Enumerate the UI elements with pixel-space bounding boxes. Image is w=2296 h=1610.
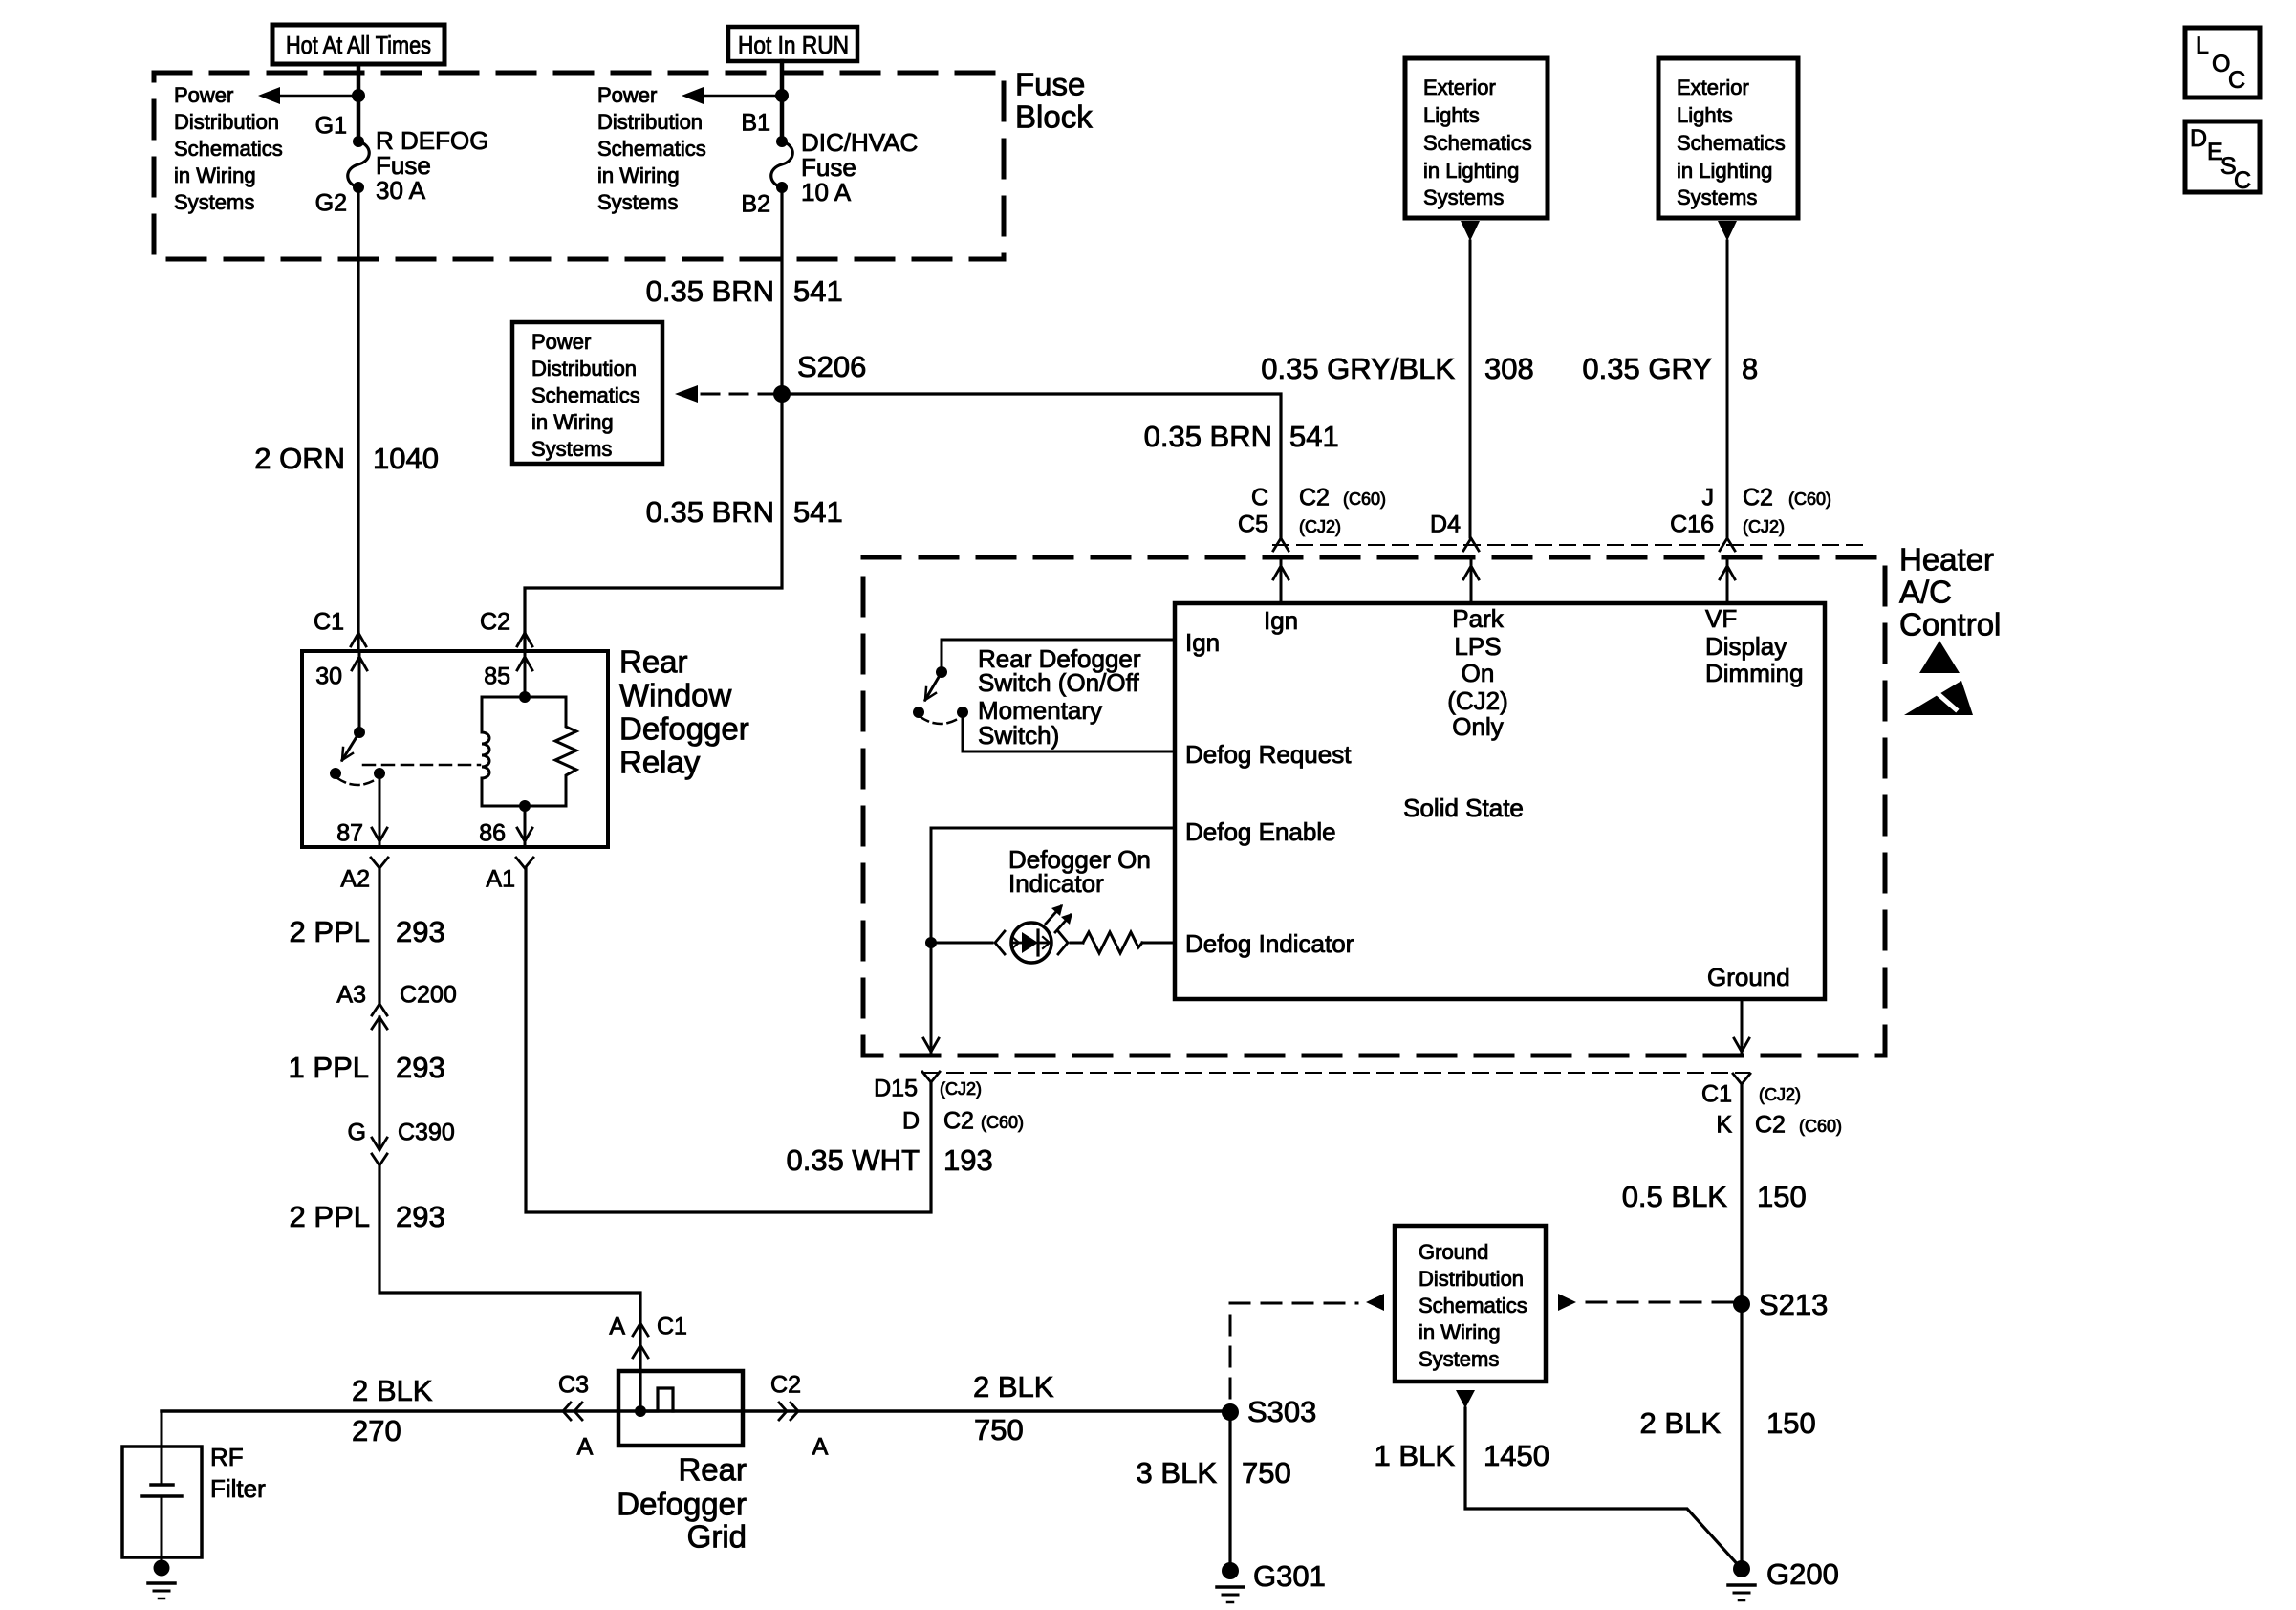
svg-text:541: 541 bbox=[793, 495, 843, 529]
svg-text:Ground: Ground bbox=[1419, 1240, 1488, 1264]
svg-text:85: 85 bbox=[484, 664, 510, 690]
svg-text:(C60): (C60) bbox=[1788, 490, 1831, 509]
svg-text:A2: A2 bbox=[340, 866, 370, 893]
svg-text:G200: G200 bbox=[1766, 1557, 1839, 1591]
svg-text:Distribution: Distribution bbox=[531, 357, 637, 381]
splice S213 bbox=[1733, 1288, 1828, 1321]
wire 0.35 WHT 193 D15 to relay A1 bbox=[526, 868, 993, 1212]
svg-text:Ign: Ign bbox=[1185, 628, 1220, 657]
fuse DIC/HVAC 10A bbox=[741, 110, 918, 218]
connector boundary dashed line (bottom) bbox=[923, 1072, 1749, 1074]
rear defogger grid box bbox=[618, 1371, 743, 1446]
label "Heater A/C Control" bbox=[1899, 542, 2001, 642]
svg-text:0.35 WHT: 0.35 WHT bbox=[786, 1143, 920, 1177]
svg-text:Heater: Heater bbox=[1899, 542, 1994, 577]
relay coil bottom rail bbox=[482, 800, 566, 812]
label "Fuse Block" bbox=[1015, 67, 1093, 135]
svg-text:(CJ2): (CJ2) bbox=[1299, 517, 1341, 536]
wire 1 PPL 293 bbox=[289, 1017, 445, 1149]
svg-text:in Wiring: in Wiring bbox=[531, 410, 614, 434]
svg-text:Hot In RUN: Hot In RUN bbox=[738, 31, 849, 59]
svg-text:L: L bbox=[2196, 33, 2209, 59]
svg-text:D15: D15 bbox=[874, 1076, 918, 1102]
svg-text:Power: Power bbox=[597, 83, 657, 107]
ground G301 bbox=[1217, 1559, 1326, 1602]
switch dashed momentary arc bbox=[921, 717, 961, 724]
svg-text:Filter: Filter bbox=[210, 1474, 266, 1503]
svg-text:293: 293 bbox=[396, 1051, 445, 1084]
svg-text:Rear: Rear bbox=[678, 1452, 747, 1488]
svg-text:Defogger: Defogger bbox=[617, 1487, 747, 1522]
svg-text:C200: C200 bbox=[400, 982, 457, 1009]
box exterior lights schematics (right) bbox=[1658, 58, 1798, 218]
LED emission arrows bbox=[1046, 904, 1072, 932]
text power distribution reference (left) bbox=[174, 83, 283, 214]
ground bus wire 2 BLK 270 bbox=[162, 1370, 1230, 1447]
svg-text:Systems: Systems bbox=[1419, 1347, 1499, 1371]
wire Defog Enable to D15 bbox=[923, 828, 1175, 1055]
svg-text:A1: A1 bbox=[486, 866, 515, 893]
connector C1 pin A into grid bbox=[609, 1314, 687, 1358]
svg-text:D: D bbox=[902, 1108, 920, 1135]
node junction on R DEFOG feed bbox=[352, 89, 365, 102]
svg-text:Exterior: Exterior bbox=[1423, 76, 1496, 99]
connector C3 pin A on grid left bbox=[558, 1372, 594, 1461]
connector D4 labels bbox=[1430, 511, 1479, 551]
label box "Hot At All Times" bbox=[272, 25, 444, 64]
wire 0.35 GRY 8 to heater C16 bbox=[1582, 241, 1758, 537]
svg-text:2 PPL: 2 PPL bbox=[290, 1200, 370, 1233]
relay coil top rail bbox=[482, 691, 566, 703]
wire D4 into solid state Park bbox=[1463, 559, 1479, 603]
svg-text:3 BLK: 3 BLK bbox=[1137, 1456, 1218, 1490]
svg-text:Defog Indicator: Defog Indicator bbox=[1185, 929, 1354, 958]
svg-text:C2: C2 bbox=[1743, 485, 1773, 511]
svg-text:G301: G301 bbox=[1253, 1559, 1326, 1593]
svg-text:Schematics: Schematics bbox=[597, 137, 706, 161]
svg-text:S213: S213 bbox=[1759, 1288, 1828, 1321]
wire S206 right to heater C5 bbox=[782, 394, 1339, 537]
wire 2 PPL 293 to rear defogger grid bbox=[290, 1165, 640, 1411]
relay switch dashed throw arc bbox=[337, 778, 378, 785]
svg-text:C: C bbox=[2228, 67, 2245, 94]
relay coil suppression resistor bbox=[555, 697, 576, 806]
svg-text:541: 541 bbox=[793, 274, 843, 308]
wire C16 into solid state VF bbox=[1720, 559, 1735, 603]
svg-text:1040: 1040 bbox=[373, 442, 439, 475]
svg-text:541: 541 bbox=[1289, 420, 1339, 453]
svg-text:0.35 GRY: 0.35 GRY bbox=[1582, 352, 1712, 385]
svg-text:in Wiring: in Wiring bbox=[174, 163, 256, 187]
svg-text:Distribution: Distribution bbox=[174, 110, 279, 134]
svg-text:D4: D4 bbox=[1430, 511, 1461, 538]
text power distribution reference (middle) bbox=[597, 83, 706, 214]
svg-text:Park: Park bbox=[1452, 604, 1504, 633]
wire 2 ORN 1040 from fuse to relay C1 bbox=[254, 187, 439, 633]
svg-text:G2: G2 bbox=[315, 190, 347, 217]
svg-text:Systems: Systems bbox=[174, 190, 254, 214]
svg-text:(CJ2): (CJ2) bbox=[1447, 686, 1508, 715]
svg-text:Exterior: Exterior bbox=[1677, 76, 1749, 99]
svg-text:in Wiring: in Wiring bbox=[597, 163, 680, 187]
svg-text:87: 87 bbox=[336, 820, 363, 847]
connector C2 into relay bbox=[480, 609, 532, 651]
svg-text:Switch (On/Off: Switch (On/Off bbox=[978, 668, 1139, 697]
box power distribution schematics (S206 ref) bbox=[512, 322, 662, 464]
grid element pulse symbol bbox=[635, 1388, 673, 1417]
svg-text:0.5 BLK: 0.5 BLK bbox=[1622, 1180, 1728, 1213]
wire from Hot In RUN down to fuse B1 bbox=[780, 61, 785, 141]
svg-text:Defog Enable: Defog Enable bbox=[1185, 817, 1336, 846]
relay pin 30 bbox=[315, 651, 367, 732]
wire 3 BLK 750 to G301 bbox=[1137, 1412, 1291, 1571]
svg-text:G: G bbox=[348, 1120, 366, 1146]
svg-text:2 BLK: 2 BLK bbox=[973, 1370, 1054, 1403]
svg-text:A: A bbox=[577, 1434, 594, 1461]
svg-text:Display: Display bbox=[1705, 632, 1787, 661]
svg-text:Fuse: Fuse bbox=[1015, 67, 1085, 102]
RF filter box bbox=[122, 1443, 266, 1557]
relay coil winding bbox=[482, 697, 489, 806]
svg-text:C2: C2 bbox=[1755, 1112, 1786, 1139]
svg-text:Distribution: Distribution bbox=[1419, 1267, 1524, 1291]
connector C16 pin J labels bbox=[1670, 485, 1831, 551]
svg-text:2 BLK: 2 BLK bbox=[352, 1374, 433, 1407]
relay switch arm bbox=[330, 727, 365, 779]
svg-text:Block: Block bbox=[1015, 99, 1093, 135]
svg-text:C16: C16 bbox=[1670, 511, 1714, 538]
svg-text:C5: C5 bbox=[1238, 511, 1268, 538]
ground symbol at RF filter bbox=[148, 1560, 175, 1599]
dashed reference ground distribution box to S213 bbox=[1558, 1294, 1732, 1311]
svg-text:Schematics: Schematics bbox=[531, 383, 640, 407]
dashed arrow S206 to power distribution box bbox=[675, 385, 772, 402]
svg-text:(C60): (C60) bbox=[1343, 490, 1386, 509]
svg-text:(C60): (C60) bbox=[1799, 1117, 1842, 1136]
rear defogger switch bbox=[913, 666, 968, 718]
svg-text:Systems: Systems bbox=[1423, 185, 1504, 209]
label "Rear Window Defogger Relay" bbox=[619, 644, 749, 780]
svg-text:0.35 BRN: 0.35 BRN bbox=[1144, 420, 1272, 453]
wire 0.5 BLK 150 to S213 bbox=[1622, 1084, 1807, 1304]
svg-text:Schematics: Schematics bbox=[1677, 131, 1786, 155]
svg-text:750: 750 bbox=[1242, 1456, 1291, 1490]
svg-text:D: D bbox=[2190, 125, 2207, 152]
wire solid state Ground pin down bbox=[1734, 999, 1749, 1055]
svg-text:10 A: 10 A bbox=[801, 178, 852, 207]
svg-text:C1: C1 bbox=[657, 1314, 687, 1340]
connector C1 pin K labels bbox=[1701, 1074, 1842, 1139]
svg-text:J: J bbox=[1702, 485, 1715, 511]
svg-text:8: 8 bbox=[1742, 352, 1758, 385]
svg-text:C1: C1 bbox=[314, 609, 344, 636]
svg-text:2 ORN: 2 ORN bbox=[254, 442, 345, 475]
svg-text:0.35 BRN: 0.35 BRN bbox=[646, 495, 774, 529]
LED defogger on indicator bbox=[931, 923, 1068, 963]
connector D15 pin D labels bbox=[874, 1072, 1024, 1135]
heater A/C control dashed outline bbox=[863, 557, 1885, 1055]
relay dashed actuation line to coil bbox=[363, 764, 480, 767]
svg-text:C2: C2 bbox=[943, 1108, 974, 1135]
arrow to power distribution (left) bbox=[258, 87, 358, 104]
svg-text:750: 750 bbox=[974, 1413, 1024, 1447]
wire from Hot At All Times down to fuse G1 bbox=[357, 64, 361, 141]
svg-text:Defog Request: Defog Request bbox=[1185, 740, 1352, 769]
svg-text:A3: A3 bbox=[336, 982, 366, 1009]
fuse R DEFOG 30A bbox=[315, 113, 489, 217]
svg-text:Lights: Lights bbox=[1677, 103, 1733, 127]
wire Ign to defogger switch bbox=[942, 640, 1175, 672]
svg-text:Window: Window bbox=[619, 678, 732, 713]
svg-text:86: 86 bbox=[479, 820, 506, 847]
svg-text:2 BLK: 2 BLK bbox=[1640, 1406, 1722, 1440]
svg-text:G1: G1 bbox=[315, 113, 347, 140]
svg-text:B2: B2 bbox=[741, 191, 770, 218]
dashed reference S303 to ground distribution box bbox=[1230, 1294, 1384, 1398]
arrow from exterior lights box (left) bbox=[1461, 221, 1480, 241]
svg-text:VF: VF bbox=[1705, 604, 1737, 633]
svg-text:1 PPL: 1 PPL bbox=[289, 1051, 369, 1084]
relay box rear window defogger relay bbox=[302, 651, 608, 847]
node junction on DIC/HVAC feed bbox=[775, 89, 789, 102]
icon box LOC bbox=[2185, 28, 2260, 98]
wire 0.35 GRY/BLK 308 to heater D4 bbox=[1261, 241, 1534, 537]
svg-text:Systems: Systems bbox=[531, 437, 612, 461]
connector A1 below relay bbox=[486, 858, 533, 893]
svg-text:C1: C1 bbox=[1701, 1081, 1732, 1108]
wire S206 down to relay C2 0.35 BRN 541 bbox=[525, 394, 843, 633]
svg-text:C2: C2 bbox=[480, 609, 510, 636]
connector C1 into relay bbox=[314, 609, 366, 651]
wire 2 BLK 150 to G200 bbox=[1640, 1304, 1816, 1569]
relay pin 85 bbox=[484, 651, 532, 697]
box exterior lights schematics (left) bbox=[1405, 58, 1548, 218]
svg-text:Schematics: Schematics bbox=[1419, 1294, 1527, 1317]
resistor defog indicator bbox=[1071, 932, 1175, 953]
svg-text:(C60): (C60) bbox=[981, 1113, 1024, 1132]
svg-text:270: 270 bbox=[352, 1414, 401, 1447]
svg-text:293: 293 bbox=[396, 1200, 445, 1233]
connector C390 pin G bbox=[348, 1120, 455, 1165]
svg-text:193: 193 bbox=[943, 1143, 993, 1177]
relay pin 87 bbox=[336, 768, 387, 847]
svg-text:Defogger: Defogger bbox=[619, 711, 749, 747]
wire 1 BLK 1450 from ground distribution to G200 bbox=[1375, 1390, 1742, 1569]
svg-text:in Lighting: in Lighting bbox=[1677, 159, 1772, 183]
svg-text:Indicator: Indicator bbox=[1008, 869, 1104, 898]
svg-text:in Wiring: in Wiring bbox=[1419, 1320, 1501, 1344]
svg-text:Hot At All Times: Hot At All Times bbox=[286, 31, 431, 59]
svg-text:On: On bbox=[1462, 659, 1495, 687]
svg-text:Ground: Ground bbox=[1707, 963, 1790, 991]
svg-text:C390: C390 bbox=[398, 1120, 455, 1146]
svg-text:C3: C3 bbox=[558, 1372, 589, 1399]
svg-text:S303: S303 bbox=[1247, 1395, 1316, 1428]
svg-text:150: 150 bbox=[1766, 1406, 1816, 1440]
svg-text:C: C bbox=[1251, 485, 1268, 511]
svg-text:Only: Only bbox=[1452, 712, 1503, 741]
svg-text:Systems: Systems bbox=[1677, 185, 1757, 209]
splice S206 bbox=[773, 350, 866, 402]
svg-text:Lights: Lights bbox=[1423, 103, 1480, 127]
svg-text:K: K bbox=[1716, 1112, 1732, 1139]
svg-text:Control: Control bbox=[1899, 607, 2001, 642]
svg-text:S206: S206 bbox=[797, 350, 866, 383]
svg-text:293: 293 bbox=[396, 915, 445, 948]
svg-text:Ign: Ign bbox=[1264, 606, 1298, 635]
RF filter capacitor bbox=[141, 1411, 182, 1568]
ground G200 bbox=[1728, 1557, 1839, 1600]
svg-text:0.35 GRY/BLK: 0.35 GRY/BLK bbox=[1261, 352, 1455, 385]
svg-text:A: A bbox=[609, 1314, 625, 1340]
label defogger on indicator bbox=[1008, 845, 1151, 898]
svg-text:Schematics: Schematics bbox=[174, 137, 283, 161]
ESD sensitive device symbol bbox=[1904, 641, 1973, 715]
svg-text:308: 308 bbox=[1484, 352, 1534, 385]
wire 0.35 BRN 541 from fuse to S206 bbox=[646, 187, 843, 394]
svg-text:Rear: Rear bbox=[619, 644, 688, 680]
svg-text:30 A: 30 A bbox=[376, 176, 426, 205]
svg-text:1450: 1450 bbox=[1484, 1439, 1549, 1472]
svg-text:A: A bbox=[812, 1434, 829, 1461]
svg-text:Distribution: Distribution bbox=[597, 110, 703, 134]
connector C2 pin A on grid right bbox=[770, 1372, 829, 1461]
svg-text:(CJ2): (CJ2) bbox=[1759, 1085, 1801, 1104]
svg-text:Grid: Grid bbox=[687, 1519, 747, 1555]
connector boundary dashed line (top) bbox=[1273, 544, 1864, 546]
svg-text:0.35 BRN: 0.35 BRN bbox=[646, 274, 774, 308]
svg-text:Switch): Switch) bbox=[978, 721, 1059, 750]
fuse block dashed outline bbox=[154, 73, 1004, 259]
label "Rear Defogger Grid" bbox=[617, 1452, 747, 1555]
relay pin 86 bbox=[479, 806, 532, 847]
svg-text:Relay: Relay bbox=[619, 745, 701, 780]
icon box DESC bbox=[2185, 121, 2260, 194]
wire C5 into solid state Ign bbox=[1273, 559, 1289, 603]
svg-text:Power: Power bbox=[174, 83, 233, 107]
solid state module box bbox=[1175, 603, 1825, 999]
svg-text:30: 30 bbox=[315, 664, 342, 690]
solid state pin name labels bbox=[1185, 604, 1804, 991]
connector A2 below relay bbox=[340, 858, 388, 893]
svg-text:C2: C2 bbox=[770, 1372, 801, 1399]
svg-text:Systems: Systems bbox=[597, 190, 678, 214]
svg-text:B1: B1 bbox=[741, 110, 770, 137]
svg-text:2 PPL: 2 PPL bbox=[290, 915, 370, 948]
svg-text:(CJ2): (CJ2) bbox=[940, 1079, 982, 1099]
arrow from exterior lights box (right) bbox=[1718, 221, 1737, 241]
svg-text:in Lighting: in Lighting bbox=[1423, 159, 1519, 183]
connector C5 pin C labels bbox=[1238, 485, 1386, 551]
label rear defogger switch bbox=[978, 644, 1141, 750]
wire 2 PPL 293 relay 87 down bbox=[290, 868, 445, 1003]
svg-text:C: C bbox=[2234, 167, 2251, 194]
svg-text:150: 150 bbox=[1757, 1180, 1807, 1213]
svg-text:1 BLK: 1 BLK bbox=[1375, 1439, 1456, 1472]
label box "Hot In RUN" bbox=[728, 27, 857, 61]
svg-text:RF: RF bbox=[210, 1443, 244, 1471]
splice S303 bbox=[1222, 1395, 1316, 1428]
arrow to power distribution (right) bbox=[682, 87, 782, 104]
svg-text:A/C: A/C bbox=[1899, 575, 1952, 610]
svg-text:Schematics: Schematics bbox=[1423, 131, 1532, 155]
svg-text:C2: C2 bbox=[1299, 485, 1330, 511]
svg-text:LPS: LPS bbox=[1454, 632, 1501, 661]
svg-text:Solid State: Solid State bbox=[1403, 794, 1524, 822]
box ground distribution schematics bbox=[1395, 1226, 1546, 1382]
svg-text:Dimming: Dimming bbox=[1705, 659, 1804, 687]
wire switch to Defog Request bbox=[963, 712, 1175, 751]
connector C200 pin A3 bbox=[336, 982, 456, 1029]
svg-text:Power: Power bbox=[531, 330, 591, 354]
svg-text:(CJ2): (CJ2) bbox=[1743, 517, 1785, 536]
